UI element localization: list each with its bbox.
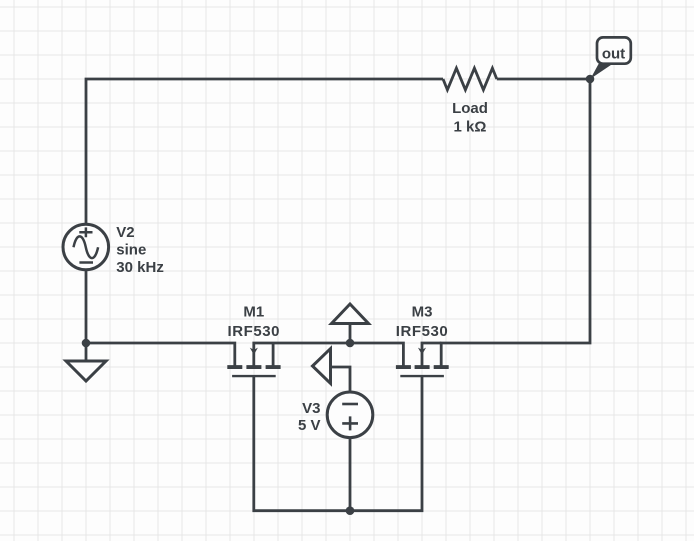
svg-text:IRF530: IRF530 xyxy=(228,323,281,340)
svg-text:IRF530: IRF530 xyxy=(396,323,449,340)
svg-text:M1: M1 xyxy=(243,303,264,320)
svg-text:30 kHz: 30 kHz xyxy=(116,259,164,276)
svg-text:1 kΩ: 1 kΩ xyxy=(454,118,487,135)
svg-text:V3: V3 xyxy=(302,400,320,417)
svg-text:Load: Load xyxy=(452,100,488,117)
svg-text:M3: M3 xyxy=(412,303,433,320)
svg-text:V2: V2 xyxy=(116,224,134,241)
svg-text:sine: sine xyxy=(116,241,146,258)
svg-text:out: out xyxy=(602,46,625,63)
svg-text:5 V: 5 V xyxy=(298,417,321,434)
